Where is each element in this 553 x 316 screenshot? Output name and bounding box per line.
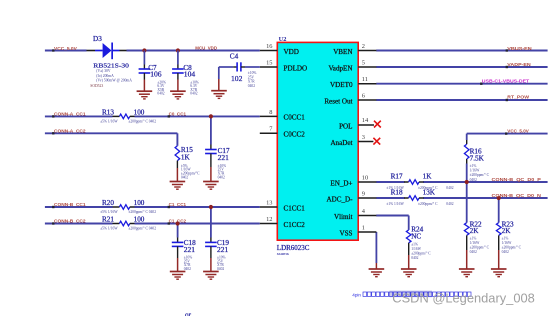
node VADP-EN label anchor <box>506 66 508 68</box>
pin 5 VadpEN (right) <box>328 59 376 72</box>
resistor R21 100 <box>102 216 145 226</box>
node CONN-B_CC2 label anchor <box>52 222 54 224</box>
capacitor C7 <box>139 51 162 92</box>
svg-text:1K: 1K <box>181 154 191 162</box>
wire CONN-B_CC1 to R20 <box>45 206 113 208</box>
svg-text:R17: R17 <box>391 173 403 181</box>
wire pin10 EN_D+ to R17 <box>376 181 404 183</box>
capacitor C4 <box>219 53 260 91</box>
ground R15 <box>170 182 186 190</box>
svg-text:PDLDO: PDLDO <box>284 64 308 72</box>
svg-text:1K: 1K <box>423 173 433 181</box>
ground R24 <box>401 269 417 277</box>
wire CONN-B_CC2 to R21 <box>45 223 113 225</box>
ground C18 <box>170 272 186 280</box>
wire pin2 VBUS-EN <box>376 50 547 52</box>
capacitor C19 221 <box>205 239 229 271</box>
value label R22 tolerance <box>470 237 490 255</box>
junction C1_CC1 / C19 <box>209 205 213 209</box>
svg-text:RT_POW: RT_POW <box>507 94 529 99</box>
wire Vlimit vertical to R24 <box>408 216 410 230</box>
pin 11 VDET0 (right) <box>330 76 376 89</box>
value label C8 tolerance <box>190 80 199 95</box>
wire pin6 RT_POW <box>376 99 547 101</box>
wire junction to R22 <box>466 182 468 223</box>
diode D3 RB521S-30 <box>87 35 130 69</box>
svg-text:SOD523: SOD523 <box>90 84 103 88</box>
svg-text:±200ppm/° C: ±200ppm/° C <box>502 246 522 250</box>
svg-text:14: 14 <box>362 117 369 124</box>
wire R17 to CONN-B_QC_D0_P <box>423 181 548 183</box>
svg-text:C0CC1: C0CC1 <box>284 114 306 122</box>
resistor R15 1K <box>175 146 193 182</box>
svg-text:4pin: 4pin <box>352 293 361 298</box>
wire C17 stem from C0_CC1 junction <box>210 116 212 144</box>
pin 13 C1CC1 (left) <box>260 199 305 212</box>
svg-text:13: 13 <box>266 199 272 206</box>
wire pin1 VSS down <box>375 232 377 263</box>
svg-text:±200ppm/° C: ±200ppm/° C <box>470 246 490 250</box>
svg-text:R18: R18 <box>391 189 403 197</box>
pin 3 AnaDet (right) <box>330 134 373 147</box>
svg-text:USB-C1-VBUS-DET: USB-C1-VBUS-DET <box>482 78 530 83</box>
wire R13 to IC pin 8 <box>135 115 260 117</box>
svg-text:221: 221 <box>218 153 230 162</box>
wire VCC to R16 <box>466 134 468 140</box>
resistor R18 13K <box>391 189 436 201</box>
node CONN-B_CC1 label anchor <box>52 206 54 208</box>
pin 4 Vlimit (right) <box>334 208 376 221</box>
pin 12 C1CC2 (left) <box>260 216 305 229</box>
svg-text:CONN-B_QC_D0_N: CONN-B_QC_D0_N <box>492 193 542 198</box>
node USB-C1-VBUS-DET label anchor <box>480 83 482 85</box>
node C1_CC2 label anchor <box>168 222 170 224</box>
value label R24 tolerance <box>411 243 431 261</box>
svg-text:C1CC2: C1CC2 <box>284 221 306 229</box>
pin 1 VSS (right) <box>339 224 376 237</box>
no-connect X on pin 14 POL <box>374 121 381 128</box>
svg-text:±200ppm/° C: ±200ppm/° C <box>418 202 438 206</box>
svg-text:±1%: ±1% <box>470 237 477 241</box>
value label C4 tolerance <box>248 71 257 88</box>
svg-text:VBEN: VBEN <box>333 48 352 56</box>
ground C8 <box>170 91 186 99</box>
svg-text:±200ppm/° C: ±200ppm/° C <box>128 227 148 231</box>
svg-text:0402: 0402 <box>218 175 225 179</box>
wire C19 stem from C1_CC1 junction <box>210 207 212 238</box>
svg-text:NC: NC <box>411 232 421 240</box>
svg-text:2K: 2K <box>470 227 480 235</box>
svg-text:CONN-A_CC1: CONN-A_CC1 <box>54 112 86 117</box>
value label R13 tolerance <box>100 120 156 124</box>
junction MCU_VDD / C7 <box>142 48 146 52</box>
svg-text:100: 100 <box>134 108 145 116</box>
wire R18 to CONN-B_QC_D0_N <box>423 197 548 199</box>
ground R23 <box>491 269 507 277</box>
svg-text:R21: R21 <box>102 216 114 224</box>
node CONN-A_CC2 label anchor <box>52 132 54 134</box>
value label C18 tolerance <box>184 256 193 271</box>
pin 14 POL (right) <box>339 117 374 130</box>
svg-text:2K: 2K <box>502 227 512 235</box>
svg-text:5: 5 <box>362 59 365 66</box>
svg-text:16: 16 <box>266 43 272 50</box>
wire junction to R23 <box>498 198 500 223</box>
ground VSS <box>369 269 385 277</box>
svg-text:12: 12 <box>266 216 272 223</box>
svg-text:0402: 0402 <box>181 175 188 179</box>
svg-text:C0CC2: C0CC2 <box>284 131 306 139</box>
svg-text:CSDN @Legendary_008: CSDN @Legendary_008 <box>392 290 535 305</box>
capacitor C18 221 <box>172 239 196 271</box>
value label C7 tolerance <box>157 80 166 95</box>
svg-text:C0_CC1: C0_CC1 <box>169 111 187 116</box>
wire pin5 VADP-EN <box>376 66 547 68</box>
svg-text:±200ppm/° C: ±200ppm/° C <box>470 173 490 177</box>
svg-text:C4: C4 <box>230 53 239 61</box>
svg-text:0402: 0402 <box>217 267 224 271</box>
svg-text:±200ppm/° C: ±200ppm/° C <box>411 252 431 256</box>
svg-text:VADP-EN: VADP-EN <box>507 62 531 67</box>
svg-text:Vlimit: Vlimit <box>334 213 353 221</box>
svg-text:0402: 0402 <box>502 250 509 254</box>
junction MCU_VDD / C8 <box>176 48 180 52</box>
pin 8 C0CC1 (left) <box>260 109 305 122</box>
junction C1_CC2 / C18 <box>176 221 180 225</box>
svg-text:106: 106 <box>150 70 162 79</box>
ground C19 <box>203 272 219 280</box>
svg-text:0402: 0402 <box>470 250 477 254</box>
svg-text:11: 11 <box>362 76 368 83</box>
ground C7 <box>137 91 153 99</box>
svg-text:±5% 1/16W: ±5% 1/16W <box>100 227 118 231</box>
pin 15 PDLDO (left) <box>260 59 307 72</box>
svg-text:0402: 0402 <box>446 202 453 206</box>
svg-text:VDET0: VDET0 <box>330 81 353 89</box>
svg-text:0402: 0402 <box>190 92 197 96</box>
value label R23 tolerance <box>502 237 522 255</box>
svg-text:221: 221 <box>184 245 196 254</box>
svg-text:±5% 1/16W: ±5% 1/16W <box>100 210 118 214</box>
ground R22 <box>459 269 475 277</box>
resistor R16 7.5K <box>464 144 484 162</box>
svg-text:VBUS-EN: VBUS-EN <box>507 46 532 51</box>
svg-text:0402: 0402 <box>149 210 156 214</box>
wire CONN-A_CC2 horizontal <box>45 132 178 134</box>
junction D0_N / R23 <box>497 196 501 200</box>
svg-text:15: 15 <box>266 59 272 66</box>
wire C18 stem from C1_CC2 junction <box>177 224 179 238</box>
wire R16 to junction D0_P <box>466 159 468 164</box>
svg-text:VCC_5.0V: VCC_5.0V <box>54 46 78 51</box>
wire R20 to IC pin 13 <box>135 206 260 208</box>
wire VCC_5.0V rail to diode D3 <box>45 50 87 52</box>
svg-text:(Vғ) 500mW @ 200mA: (Vғ) 500mW @ 200mA <box>96 79 132 83</box>
node VCC_5.0V right label anchor <box>505 132 507 134</box>
svg-text:9: 9 <box>362 190 365 197</box>
value label C19 tolerance <box>217 256 226 271</box>
node C1_CC1 label anchor <box>168 206 170 208</box>
node VCC_5.0V label anchor <box>52 49 54 51</box>
svg-text:±1%: ±1% <box>470 164 477 168</box>
value label R20 tolerance <box>100 210 156 214</box>
svg-text:or: or <box>185 311 192 316</box>
svg-text:±1%: ±1% <box>502 237 509 241</box>
svg-text:0402: 0402 <box>149 227 156 231</box>
value label C17 tolerance <box>218 164 227 179</box>
svg-text:102: 102 <box>231 74 243 83</box>
svg-text:C1CC1: C1CC1 <box>284 204 306 212</box>
svg-text:1/16W: 1/16W <box>470 241 480 245</box>
svg-text:(Vᴀ) 30V: (Vᴀ) 30V <box>96 69 111 73</box>
svg-text:±200ppm/° C: ±200ppm/° C <box>128 120 148 124</box>
wire MCU_VDD rail from diode to IC pin 16 <box>127 50 260 52</box>
svg-text:1: 1 <box>362 224 365 231</box>
svg-text:8: 8 <box>269 109 272 116</box>
wire pin4 Vlimit horizontal <box>376 215 409 217</box>
op-amp U1 IC U2 LDR6023C body <box>277 36 358 256</box>
svg-text:1/16W: 1/16W <box>470 169 480 173</box>
value label R17 tolerance <box>386 186 453 190</box>
svg-text:104: 104 <box>184 70 196 79</box>
svg-text:0402: 0402 <box>411 256 418 260</box>
wire pin11 USB-C1-VBUS-DET <box>376 83 547 85</box>
svg-text:3: 3 <box>362 134 365 141</box>
value label D3 parameters <box>90 69 132 88</box>
svg-text:100: 100 <box>134 199 145 207</box>
svg-text:CONN-B_CC1: CONN-B_CC1 <box>54 202 86 207</box>
ground C17 <box>203 182 219 190</box>
svg-text:CONN-B_QC_D0_P: CONN-B_QC_D0_P <box>492 177 541 182</box>
svg-text:Reset Out: Reset Out <box>324 97 352 105</box>
svg-text:CONN-B_CC2: CONN-B_CC2 <box>54 219 86 224</box>
svg-text:MCU_VDD: MCU_VDD <box>195 46 217 51</box>
wire CONN-A_CC2 vertical to R15 <box>176 133 178 146</box>
svg-text:POL: POL <box>339 122 352 130</box>
pin 7 C0CC2 (left) <box>260 126 305 139</box>
svg-text:EN_D+: EN_D+ <box>330 179 352 187</box>
svg-text:ADC_D-: ADC_D- <box>326 195 353 203</box>
svg-text:0402: 0402 <box>149 120 156 124</box>
value label R18 tolerance <box>386 202 453 206</box>
svg-text:VSS: VSS <box>339 229 352 237</box>
pin 16 VDD (left) <box>260 43 299 56</box>
svg-text:0402: 0402 <box>470 178 477 182</box>
svg-text:U2: U2 <box>279 36 287 43</box>
svg-text:7.5K: 7.5K <box>470 154 485 162</box>
value label R21 tolerance <box>100 227 156 231</box>
value label R15 tolerance <box>181 164 200 179</box>
value label R16 tolerance <box>470 164 490 182</box>
svg-text:R20: R20 <box>102 199 114 207</box>
junction C0_CC1 / C17 <box>209 114 213 118</box>
svg-text:6: 6 <box>362 92 365 99</box>
svg-text:(Iᴏ) 200mA: (Iᴏ) 200mA <box>96 74 114 78</box>
pin 10 EN_D+ (right) <box>330 174 376 187</box>
wire VCC_5.0V right rail <box>467 133 548 135</box>
svg-text:1/16W: 1/16W <box>502 241 512 245</box>
svg-text:±1% 1/16W: ±1% 1/16W <box>386 202 404 206</box>
resistor R13 100 <box>102 108 145 118</box>
svg-text:SSOP16: SSOP16 <box>277 252 289 256</box>
junction D0_P / R16 / R22 <box>465 180 469 184</box>
svg-text:0402: 0402 <box>184 267 191 271</box>
tiny blue annotation text <box>352 291 471 298</box>
resistor R22 2K <box>464 220 482 269</box>
svg-text:0402: 0402 <box>248 84 255 88</box>
node C0_CC1 label anchor <box>168 115 170 117</box>
wire R21 to IC pin 12 <box>135 223 260 225</box>
resistor R20 100 <box>102 199 145 209</box>
resistor R17 1K <box>391 173 433 185</box>
no-connect X on pin 3 AnaDet <box>373 138 380 145</box>
svg-text:D3: D3 <box>93 35 102 43</box>
svg-text:C1_CC1: C1_CC1 <box>169 202 187 207</box>
svg-text:0402: 0402 <box>446 186 453 190</box>
svg-text:±1%: ±1% <box>411 243 418 247</box>
capacitor C17 221 <box>205 147 230 182</box>
svg-text:10: 10 <box>362 174 368 181</box>
svg-text:R13: R13 <box>102 108 114 116</box>
svg-text:CONN-A_CC2: CONN-A_CC2 <box>54 128 86 133</box>
svg-text:221: 221 <box>217 245 229 254</box>
pin 9 ADC_D- (right) <box>326 190 376 203</box>
wire pin9 ADC_D- to R18 <box>376 197 404 199</box>
svg-text:VDD: VDD <box>284 48 299 56</box>
svg-text:1/16W: 1/16W <box>411 247 421 251</box>
node CONN-A_CC1 label anchor <box>52 115 54 117</box>
capacitor C8 <box>172 51 195 92</box>
svg-text:VCC_5.0V: VCC_5.0V <box>507 129 529 134</box>
svg-text:VadpEN: VadpEN <box>328 64 352 72</box>
node RT_POW label anchor <box>506 99 508 101</box>
pin 6 Reset Out (right) <box>324 92 376 105</box>
wire CONN-A_CC1 to R13 <box>45 115 113 117</box>
pin 2 VBEN (right) <box>333 43 376 56</box>
ground C4 <box>211 91 227 99</box>
node VBUS-EN label anchor <box>506 49 508 51</box>
svg-text:AnaDet: AnaDet <box>330 139 352 147</box>
svg-text:±200ppm/° C: ±200ppm/° C <box>128 210 148 214</box>
svg-text:0402: 0402 <box>157 92 164 96</box>
resistor R24 NC <box>406 225 423 269</box>
svg-text:±5% 1/16W: ±5% 1/16W <box>100 120 118 124</box>
svg-text:100: 100 <box>134 216 145 224</box>
svg-text:2: 2 <box>362 43 365 50</box>
svg-text:13K: 13K <box>423 189 436 197</box>
resistor R23 2K <box>496 220 514 269</box>
